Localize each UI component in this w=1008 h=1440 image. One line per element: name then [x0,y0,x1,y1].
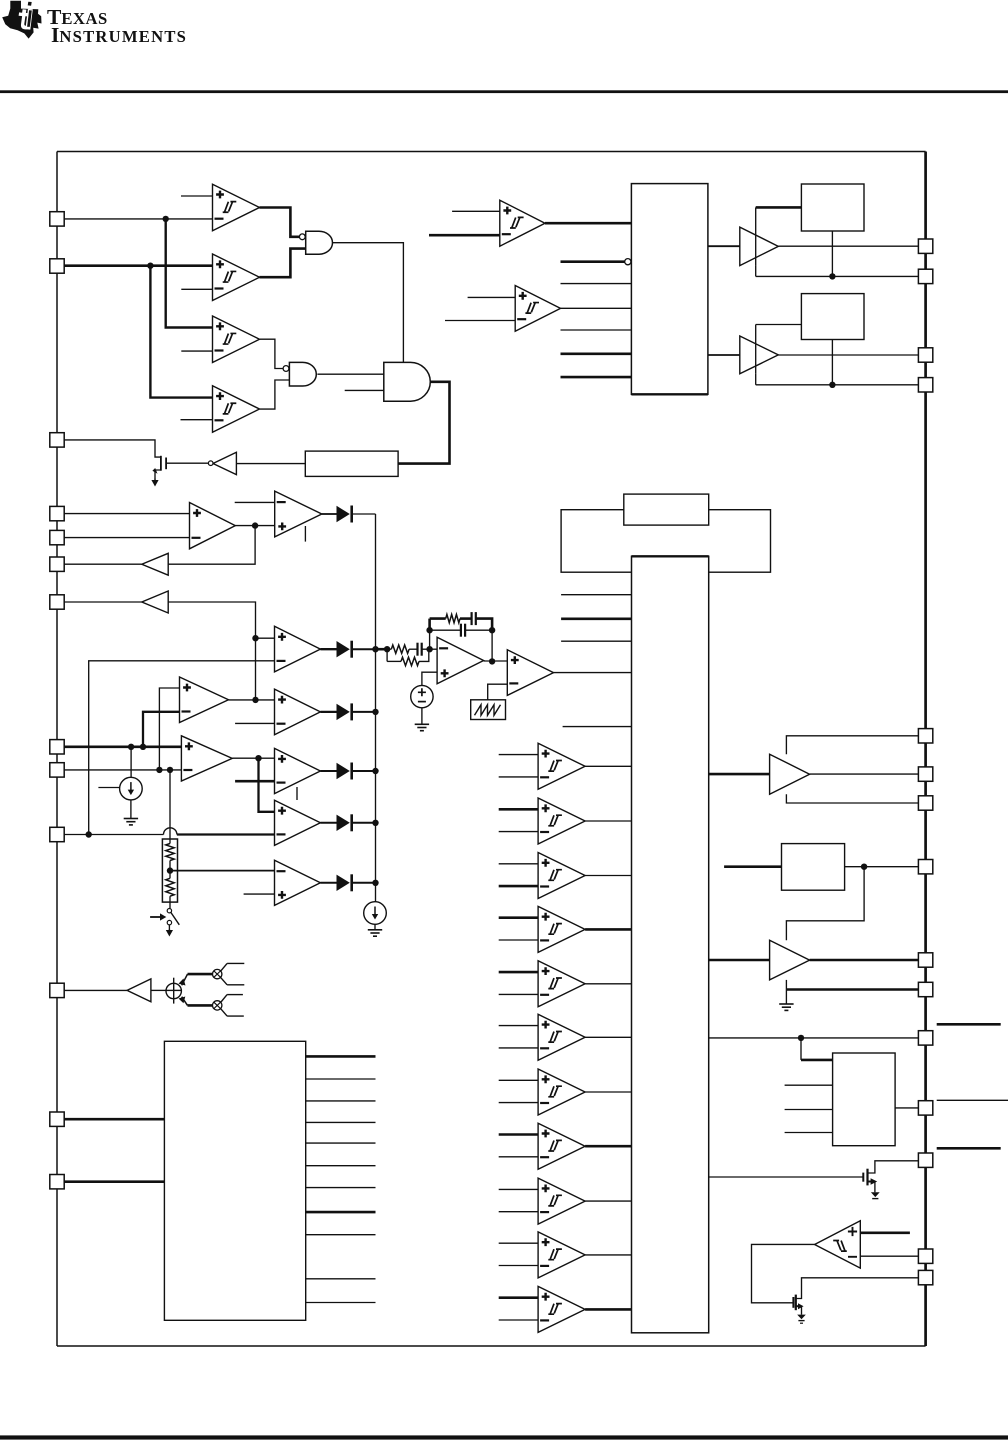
external stub upper right [937,1023,1001,1026]
wire comparator C8 output to block B2 [585,1145,631,1148]
amp A5 reference stub [235,780,274,783]
wire amp A3 inverting input from pin8 net [143,712,180,747]
wire net to amp A1 noninverting input [256,637,275,639]
node sense junction F2 [829,382,835,388]
comparator U1 [213,184,260,231]
DAC output stub 6 [306,1165,376,1167]
wire comparator C2 output to block B2 [585,820,631,822]
oscillator sawtooth box [471,700,506,720]
wire amp A7 output to diode D5 [320,882,336,884]
wire comparator C11 output to block B2 [585,1308,631,1311]
wire pin1 to comparator U1 inverting input [64,218,213,220]
pin L11 [50,983,64,997]
DAC output stub 5 [306,1142,376,1144]
wire driver T3 bottom to pinR7 [786,794,918,803]
wire comparator U3 reference stub [181,350,212,352]
DAC output stub 10 [306,1278,376,1280]
comparator bank C4 [538,906,585,952]
resistor R4 branch [387,649,429,665]
diode-OR rail [375,514,377,902]
pin R11 [918,1031,932,1045]
resistor R1 [166,839,174,866]
wire comparator U4 output to NAND G2 input B [260,380,290,409]
capacitor C1 [418,643,422,656]
amp A7 reference stub [244,893,275,895]
node op-amp U5 output junction [252,522,258,528]
pin R1 [918,239,932,253]
comparator bank C9 [538,1178,585,1224]
wire pin2 to comparator U2 noninverting input [64,264,213,267]
DAC output stub 4 [306,1121,376,1123]
wire gate G3 output to monostable [398,382,449,464]
wire comparator C5 output to block B2 [585,983,631,985]
wire comparator C3 output to block B2 [585,875,631,877]
wire driver T1 lower corner [755,266,757,277]
wire driver T4 output to pinR9 [810,959,919,962]
pin L7 [50,595,64,609]
comparator U9 [515,286,560,332]
comparator bank C2 [538,798,585,844]
ground below reference V1 [415,724,429,730]
wire comparator U4 reference stub [181,419,213,421]
driver buffer T3 [770,754,810,794]
wire capacitor C1 to inverting node [422,648,437,650]
wire feedback lower path [430,629,493,631]
comparator bank C6 [538,1014,585,1060]
pin L6 [50,557,64,571]
wire gate G3 input B stub [345,389,384,391]
resistor R3 [387,645,417,653]
pin R6 [918,767,932,781]
node pin1 net junction [163,216,169,222]
node error amp output junction [489,658,495,664]
NAND gate G1 inverted-input bubble [299,234,305,240]
wire comparator C9 output to block B2 [585,1200,631,1202]
wire amp A2 output to diode D2 [320,711,336,713]
amp A4 [181,736,232,781]
wire sense line to pinR2 [756,275,919,277]
error amplifier U6 [437,637,484,684]
TI logo wordmark TEXAS INSTRUMENTS [47,5,187,47]
pin L12 [50,1112,64,1126]
wire diode D3 to OR rail [353,770,376,772]
buffer I2 to pin6 [64,553,168,575]
logic block B2 top edge [632,555,709,557]
wire box F3 feedback to driver T4 [786,867,864,941]
NAND gate G2 inverted-input bubble [283,366,289,372]
wire comparator C10 output to block B2 [585,1254,631,1256]
wire hop over divider [164,828,177,835]
pin L4 [50,506,64,520]
transistor M3 [793,1278,918,1315]
wire pin4 to op-amp U5 noninverting input [64,513,190,515]
wire feedback upper path [430,619,446,631]
wire driver T1 output to pinR1 [778,245,918,247]
diode D3 [337,763,352,780]
comparator bank C6 inverting stub [499,1047,538,1049]
node amp A1 noninverting junction [252,635,258,641]
wire block B1 to driver T2 [708,354,740,356]
block B1 input stub b [561,329,632,331]
wire diode D5 to OR rail [353,882,376,884]
DAC output stub 1 [306,1055,376,1058]
wire block B2 to driver T3 [709,773,770,776]
svg-text:INSTRUMENTS: INSTRUMENTS [51,23,187,47]
node amp A2 noninverting junction [252,697,258,703]
comparator U8 noninverting stub [452,210,500,212]
wire comparator C4 output to block B2 [585,928,631,931]
transistor M2 [863,1161,918,1193]
wire driver T1 bootstrap to box F1 [756,207,802,265]
amp A2 reference stub [235,722,274,724]
wire block B2 to transistor M2 gate [709,1176,864,1178]
sense box F3 [782,844,845,891]
wire pin11 to buffer I4 [64,989,127,991]
comparator bank C4 noninverting stub [499,916,538,919]
wire buffer I4 to summing node [151,989,166,991]
comparator bank C8 [538,1123,585,1169]
buffer I3 [142,591,168,613]
pin R15 [918,1270,932,1284]
pin R3 [918,348,932,362]
wire comparator U1 reference stub [181,195,213,197]
DAC output stub 11 [306,1302,376,1304]
amp A7 [275,860,321,905]
wire sense line to pinR4 [756,384,919,386]
comparator bank C2 noninverting stub [499,808,538,811]
pin L9 [50,763,64,777]
comparator bank C10 inverting stub [499,1265,538,1267]
node pin2 net junction [147,263,153,269]
comparator U10 (left-facing) [815,1221,861,1268]
comparator bank C4 inverting stub [499,939,538,941]
block B1 inverted input bubble [625,259,631,265]
comparator bank C2 inverting stub [499,831,538,833]
inverter I1 [213,452,236,474]
wire capacitor C3 to output node [476,619,492,631]
flyback box F2 [801,294,864,340]
node pin8 amp A3 junction [140,744,146,750]
wire box F1 to sense line [831,231,833,276]
wire pin3 to transistor M1 drain [64,440,161,457]
wire gate G1 output to gate G3 top input [333,243,404,363]
wire op-amp U5 output node [235,525,255,527]
wire pin1 net to comparator U3 noninverting input [166,219,213,328]
DAC output stub 8 [306,1211,376,1214]
wire pin9 net to divider [169,770,171,839]
amp A0 [275,491,322,537]
pin R13 [918,1153,932,1167]
node rail D3 junction [372,768,378,774]
wire gate G2 output to gate G3 input A [317,373,383,375]
wire summing node to mixer X2 (upper) [182,974,213,985]
wire comparator C7 output to block B2 [585,1091,631,1093]
mixer X2 upper leg [221,963,245,971]
wire pin12 to DAC block [64,1118,164,1121]
wire amp A1 output to diode D1 [320,648,336,650]
mixer X3 upper leg [221,995,243,1003]
wire diode D4 to OR rail [353,822,376,824]
DAC output stub 2 [306,1078,376,1080]
voltage reference wire [422,672,437,685]
ground below transistor M3 [797,1315,806,1324]
wire net down to amp A2 noninverting node [255,638,257,700]
comparator bank C7 [538,1069,585,1115]
diode D1 [337,641,352,658]
wire box F4 output to pinR12 [895,1107,918,1109]
wire pin7 to buffer I3 [64,601,142,603]
wire op-amp U5 output to buffer I2 [168,526,255,565]
diode D4 [337,814,352,831]
box F4 input stub 3 [785,1132,833,1134]
wire comparator U3 output to NAND G2 inverted input [260,339,283,368]
pin L1 [50,212,64,226]
summing node X1 [166,978,186,1004]
wire diode D1 to OR rail [353,648,376,650]
node error amp inverting junction [426,646,432,652]
pin R14 [918,1249,932,1263]
logic block B2 input stub 4 [563,726,632,728]
block B1 input stub a [561,283,632,285]
node rail D2 junction [372,709,378,715]
wire sawtooth to PWM inverting input [488,684,508,700]
logic box F4 [833,1053,896,1146]
amp A5 unused-pin tick [296,787,298,800]
box F4 input stub 2 [785,1109,833,1111]
current source I1 [120,777,143,800]
wire junction to amp A2 noninverting input [256,699,275,701]
ground below current source I1 [124,819,138,825]
amp A0 unused-pin tick [304,526,306,542]
wire diode D0 to OR rail [353,513,376,515]
wire node to amp A5 noninverting input [259,757,275,759]
amp A3 [180,677,229,723]
wire node to amp A6 noninverting input [259,758,275,812]
wire feedback node up [429,630,431,649]
pin L13 [50,1175,64,1189]
op-amp U5 [190,503,236,549]
wire buffer I3 input net [168,602,255,638]
logic block B2 input stub 2 [561,617,631,620]
DAC output stub 3 [306,1100,376,1102]
wire pin13 to DAC block [64,1180,164,1183]
wire feedback to output junction [491,630,493,661]
sense box F3 input stub [724,865,781,868]
wire op-amp U5 output to amp A0 noninverting input [255,525,275,527]
mixer X3 [213,1001,222,1010]
comparator bank C8 noninverting stub [499,1133,538,1136]
wire amp A5 output to diode D3 [320,770,336,772]
wire driver T2 output to pinR3 [778,354,918,356]
comparator bank C11 [538,1286,585,1332]
external stub middle right [937,1099,1008,1101]
comparator bank C7 inverting stub [499,1102,538,1104]
DAC block B5 [164,1041,305,1320]
buffer I4 [127,979,151,1002]
node sense junction F1 [829,273,835,279]
current source I2 [364,902,387,925]
wire pin10 to divider hop [64,834,164,836]
node pin9 divider junction [167,767,173,773]
ground arrow below transistor M1 [151,479,158,487]
box F4 input stub 1 [785,1084,833,1086]
header rule [0,90,1008,93]
DAC output stub 7 [306,1187,376,1189]
logic block B2 [632,556,709,1333]
wire block B2 to driver T4 [709,959,770,962]
comparator bank C3 inverting stub [499,885,538,888]
wire box F2 to sense line [831,340,833,385]
wire comparator U2 reference stub [181,288,212,290]
comparator U10 noninverting stub [860,1232,910,1235]
pin L3 [50,433,64,447]
wire monostable to inverter I1 [236,463,305,465]
wire block B1 to driver T1 [708,245,740,247]
node pin8 current-source junction [128,744,134,750]
wire pin10 net to amp A1 inverting input [89,661,275,835]
wire comparator U1 output to NAND G1 inverted input [260,208,300,237]
node amp A4 output junction [255,755,261,761]
wire comparator C1 output to block B2 [585,765,631,767]
wire pin5 to op-amp U5 inverting input [64,537,190,539]
block B1 input stub d [561,376,632,379]
pin L10 [50,827,64,841]
node error network junction [384,646,390,652]
transistor M1 [152,456,166,479]
node divider tap junction [167,867,173,873]
DAC output stub 9 [306,1234,376,1236]
logic block B2 input stub 3 [561,640,631,642]
wire current source I1 to ground [130,800,132,818]
mixer X3 lower leg [221,1009,244,1017]
test switch S1 [167,909,179,925]
comparator bank C11 noninverting stub [499,1296,538,1299]
wire comparator U2 output to NAND G1 input B [260,249,306,278]
node feedback right junction [489,627,495,633]
resistor R2 [166,866,174,902]
capacitor C2 [461,624,465,637]
current source I1 left stub [98,787,119,789]
flyback box F1 [801,184,864,231]
comparator bank C3 noninverting stub [499,863,538,865]
wire comparator U10 output to transistor M3 gate [752,1244,815,1302]
comparator bank C3 [538,853,585,899]
comparator bank C5 [538,961,585,1007]
pin L2 [50,259,64,273]
amp A6 [275,800,321,845]
wire pinR11 net to box F4 [801,1038,833,1060]
divider resistor box [162,839,177,902]
wire driver T2 bootstrap to box F2 [756,325,802,374]
amp A3 output to junction [229,699,256,701]
node feedback lower junction [426,627,432,633]
pin R12 [918,1101,932,1115]
wire summing node to mixer X3 (lower) [182,997,213,1006]
wire comparator C6 output to block B2 [585,1036,631,1038]
block B1 inverted input wire [561,260,625,263]
comparator U9 inverting stub [445,320,515,322]
wire divider tap to amp A7 inverting input [170,870,275,872]
comparator U8 [500,200,545,246]
comparator bank C6 noninverting stub [499,1025,538,1027]
wire resistor R5 to capacitor C3 [460,617,472,620]
wire reference V1 to ground [421,708,423,724]
wire driver T4 to ground [785,990,787,1004]
inverter I1 output bubble [208,461,213,466]
wire pinR5 to driver T3 top [786,736,918,754]
timing block B3 [561,510,770,573]
substrate arrow below switch [166,930,173,937]
wire amp A0 output to diode D0 [322,513,337,515]
wire diode D2 to OR rail [353,711,376,713]
driver buffer T2 [740,336,779,374]
test switch control arrow [150,913,166,920]
wire comparator U8 output to block B1 [545,222,631,225]
wire PWM comparator output to logic block [554,672,632,674]
comparator bank C9 noninverting stub [499,1188,538,1190]
ground below transistor M2 [871,1192,880,1198]
node rail D1 junction [372,646,378,652]
diode D0 [337,506,352,523]
node box F3 output junction [861,864,867,870]
mixer X2 [213,969,222,978]
wire rail to error-amp input network [376,648,388,651]
logic block B2 input stub 1 [561,594,631,596]
resistor R5 [446,614,460,622]
wire driver T3 output to pinR6 [810,773,919,775]
AND gate G2 [289,362,316,386]
diode D2 [337,703,352,720]
comparator U4 [213,386,260,433]
wire pin2 net to comparator U4 noninverting input [150,266,212,398]
node rail D4 junction [372,820,378,826]
node pin9 amp A3 junction [156,767,162,773]
comparator bank C7 noninverting stub [499,1079,538,1081]
comparator bank C1 noninverting stub [499,754,538,756]
footer rule [0,1435,1008,1439]
AND gate G3 [384,362,431,401]
wire divider to test switch [169,902,171,908]
wire driver T4 bottom to pinR10 [786,980,918,990]
comparator U8 inverting stub [429,234,500,237]
diode D5 [337,874,352,891]
external stub lower right [937,1147,1001,1150]
wire pin9 to amp A4 inverting input [64,769,181,771]
wire switch to substrate arrow [168,925,170,931]
wire comparator U9 output to block B1 [561,307,632,309]
node pinR11 net junction [798,1035,804,1041]
mixer X2 lower leg [221,977,245,984]
wire amp A3 noninverting input from pin9 net [159,688,179,770]
wire inverter I1 to transistor M1 gate [166,462,208,464]
output logic block B1 [631,184,708,395]
pin L8 [50,740,64,754]
wire hop to amp A6 inverting input [177,833,275,835]
comparator bank C1 [538,743,585,789]
TI logo Texas-state emblem [2,1,41,39]
block B1 input stub c [561,352,632,355]
comparator U2 [213,254,260,301]
oscillator block B4 [624,494,709,525]
amp A1 [275,626,321,672]
pin L5 [50,530,64,544]
block B1 bottom edge [631,393,708,395]
comparator bank C10 [538,1232,585,1278]
pin R5 [918,729,932,743]
comparator U3 [213,316,260,363]
AND gate G1 [306,231,333,254]
comparator bank C10 noninverting stub [499,1242,538,1244]
